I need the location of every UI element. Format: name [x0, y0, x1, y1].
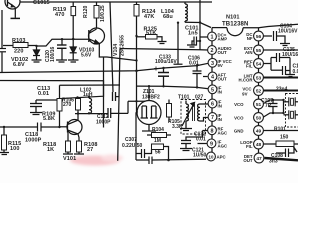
svg-text:1000P: 1000P [25, 138, 42, 144]
svg-text:1K: 1K [47, 147, 54, 153]
svg-text:IN: IN [218, 104, 222, 109]
svg-text:TB1238N: TB1238N [222, 22, 248, 28]
svg-text:49: 49 [256, 129, 262, 135]
svg-text:IN: IN [218, 117, 222, 122]
svg-text:2SC2655: 2SC2655 [120, 35, 126, 56]
svg-text:68u: 68u [163, 14, 173, 20]
svg-text:53: 53 [256, 76, 262, 82]
svg-text:10/0.25: 10/0.25 [100, 5, 106, 22]
svg-text:FIL: FIL [246, 64, 253, 69]
svg-text:0.01: 0.01 [196, 137, 206, 143]
svg-text:1M: 1M [154, 138, 161, 144]
svg-text:H.COR: H.COR [239, 78, 254, 83]
svg-text:9: 9 [210, 142, 213, 148]
svg-text:9V: 9V [242, 91, 247, 96]
svg-text:1: 1 [211, 35, 214, 41]
svg-text:027: 027 [195, 95, 204, 101]
svg-text:2: 2 [211, 48, 214, 54]
svg-text:5: 5 [211, 87, 214, 93]
svg-text:GND: GND [234, 129, 244, 134]
svg-text:23n4: 23n4 [276, 87, 288, 93]
svg-text:IN: IN [218, 89, 222, 94]
svg-text:NF: NF [247, 36, 253, 41]
svg-text:1000P: 1000P [96, 120, 111, 126]
svg-text:7P: 7P [265, 103, 272, 109]
svg-text:10U/16: 10U/16 [282, 52, 298, 58]
svg-text:6: 6 [211, 102, 214, 108]
svg-text:1U/50: 1U/50 [193, 153, 207, 159]
svg-text:470: 470 [55, 12, 64, 18]
svg-text:10U/16V: 10U/16V [278, 29, 298, 35]
svg-text:V104: V104 [113, 44, 119, 56]
svg-text:4: 4 [211, 75, 214, 81]
svg-text:100: 100 [10, 146, 19, 152]
svg-text:47K: 47K [144, 14, 154, 20]
svg-text:VCO: VCO [234, 102, 244, 107]
svg-text:R120: R120 [83, 5, 89, 18]
svg-text:3: 3 [211, 61, 214, 67]
svg-text:56: 56 [256, 34, 262, 40]
svg-text:220: 220 [14, 49, 23, 55]
svg-text:R104: R104 [152, 127, 164, 133]
svg-text:1n5: 1n5 [188, 31, 198, 37]
svg-text:N101: N101 [226, 14, 240, 20]
svg-text:OUT: OUT [243, 158, 253, 163]
svg-text:47: 47 [256, 156, 262, 162]
svg-text:3.3K: 3.3K [172, 124, 183, 130]
svg-text:100u/16V: 100u/16V [155, 59, 177, 65]
svg-text:FIL: FIL [246, 144, 253, 149]
svg-text:0.01: 0.01 [38, 91, 49, 97]
svg-text:8: 8 [211, 128, 214, 134]
svg-text:0.0: 0.0 [293, 69, 299, 75]
svg-text:0.01: 0.01 [189, 61, 199, 67]
svg-text:OUT: OUT [218, 50, 228, 55]
svg-text:270: 270 [63, 102, 72, 108]
svg-text:R101: R101 [274, 127, 286, 133]
svg-text:AIN: AIN [245, 50, 252, 55]
svg-text:AGC: AGC [218, 144, 229, 149]
svg-text:V101: V101 [63, 156, 76, 162]
svg-text:54: 54 [256, 62, 262, 68]
svg-text:R103: R103 [12, 38, 26, 44]
svg-text:51K: 51K [146, 30, 156, 36]
svg-text:100/16: 100/16 [50, 46, 56, 62]
svg-text:5.8K: 5.8K [43, 116, 55, 122]
svg-text:VCO: VCO [234, 116, 244, 121]
svg-text:1uH: 1uH [83, 92, 93, 98]
svg-text:T101: T101 [178, 95, 190, 101]
svg-text:130BF2: 130BF2 [142, 95, 160, 101]
svg-text:50: 50 [256, 116, 262, 122]
svg-text:0.22U/50: 0.22U/50 [122, 143, 143, 149]
svg-text:OUT: OUT [218, 77, 228, 82]
svg-text:55: 55 [256, 48, 262, 54]
svg-text:10: 10 [209, 154, 214, 159]
svg-text:9V: 9V [218, 63, 223, 68]
svg-text:150: 150 [280, 135, 289, 141]
svg-text:48: 48 [256, 142, 262, 148]
svg-text:C1015: C1015 [33, 0, 50, 6]
svg-text:AMP: AMP [218, 37, 228, 42]
svg-text:56: 56 [155, 150, 161, 156]
svg-text:27: 27 [87, 147, 93, 153]
svg-text:7: 7 [211, 115, 214, 121]
svg-text:5.6V: 5.6V [81, 53, 92, 59]
svg-text:AGC: AGC [218, 130, 229, 135]
svg-text:3n3: 3n3 [269, 159, 278, 165]
svg-text:APC: APC [217, 155, 227, 160]
svg-text:6.8V: 6.8V [13, 62, 25, 68]
svg-text:52: 52 [256, 89, 262, 95]
